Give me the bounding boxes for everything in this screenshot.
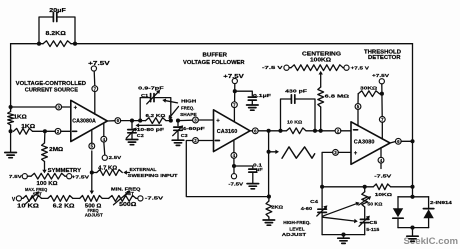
svg-text:CA3080: CA3080: [354, 140, 375, 146]
label -7.5V U3: [374, 163, 392, 180]
label 4.7K: [98, 165, 117, 171]
terminal 2.5V: [102, 142, 122, 161]
svg-text:430 pF: 430 pF: [285, 88, 307, 94]
arrow shape to C3: [169, 107, 179, 120]
label C5: [366, 220, 379, 232]
potentiometer 500 min freq: [109, 191, 136, 205]
svg-text:+: +: [354, 151, 358, 157]
svg-text:2KΩ: 2KΩ: [271, 204, 283, 210]
svg-text:7.5V: 7.5V: [9, 174, 23, 180]
svg-text:C5: C5: [369, 220, 377, 225]
label high-freq level adjust: [282, 220, 311, 237]
wiper arrow centering: [319, 71, 323, 87]
wire 6.2K to freq adjust pot: [73, 197, 80, 199]
node C3: [176, 119, 180, 123]
resistor 10K RC: [281, 128, 316, 134]
wire +7.5V to pin7: [93, 71, 96, 86]
pin 5 U3: [355, 104, 361, 110]
terminal V input: [12, 196, 22, 203]
resistor 30K: [358, 91, 382, 97]
label C1: [138, 85, 164, 97]
svg-text:FREQ.: FREQ.: [181, 106, 194, 111]
svg-text:6.8 MΩ: 6.8 MΩ: [325, 93, 350, 99]
node 30K right: [380, 92, 384, 96]
label C2: [136, 123, 165, 138]
wire U3 tip to pin6: [390, 142, 396, 144]
svg-text:HIGH: HIGH: [181, 99, 197, 104]
ground C2: [126, 140, 138, 145]
wire pin5 from U1 edge: [91, 130, 93, 143]
svg-text:5-115: 5-115: [366, 227, 379, 232]
svg-text:C3: C3: [181, 133, 188, 138]
svg-text:50 KΩ: 50 KΩ: [367, 201, 382, 207]
op-amp U3 CA3080: [351, 122, 390, 165]
label 430pF: [285, 88, 307, 94]
label voltage-controlled current source: [16, 81, 87, 94]
wire C3 node to pin3 U2: [178, 119, 193, 121]
pin 4 U3: [378, 157, 384, 163]
svg-text:2.5V: 2.5V: [109, 155, 123, 161]
svg-text:20μF: 20μF: [49, 8, 66, 14]
wiper arrow freq adjust: [90, 151, 94, 194]
node pin5 sweep junction: [90, 170, 94, 174]
node bypass bottom: [232, 164, 236, 168]
resistor 6.2K bottom: [48, 196, 73, 202]
potentiometer 10K max freq: [22, 191, 42, 205]
svg-text:VOLTAGE FOLLOWER: VOLTAGE FOLLOWER: [183, 60, 245, 66]
pin 3 U2: [193, 117, 199, 123]
resistor 1K vertical: [8, 107, 14, 131]
label 2M: [49, 147, 63, 153]
node waveform tap: [267, 150, 271, 154]
svg-text:1KΩ: 1KΩ: [14, 114, 27, 120]
wire maxfreq to 6.2K: [42, 197, 48, 199]
wire diode box top: [398, 196, 429, 198]
pin 2 U2: [193, 138, 199, 144]
resistor 1K horizontal: [14, 128, 45, 134]
node C1 right: [169, 119, 173, 123]
node R2 to pin2: [43, 129, 47, 133]
svg-text:LEVEL: LEVEL: [289, 226, 304, 231]
wire rail to pin3 U1: [9, 105, 71, 109]
wire pin3 to U2: [198, 119, 213, 121]
label C4: [301, 199, 319, 211]
label 2-IN914: [430, 200, 452, 205]
svg-text:SWEEPING INPUT: SWEEPING INPUT: [128, 173, 178, 178]
svg-text:4-60pF: 4-60pF: [182, 126, 205, 131]
capacitor C2 10-80pF: [126, 121, 136, 140]
node 2K junction: [267, 195, 271, 199]
ground left rail: [5, 153, 17, 158]
svg-text:8.2KΩ: 8.2KΩ: [46, 31, 66, 37]
label 1K vertical: [14, 114, 27, 120]
wire pin7 into U3: [381, 122, 383, 139]
svg-text:SYMMETRY: SYMMETRY: [48, 168, 82, 174]
resistor 4.7K sweep: [92, 170, 123, 176]
label 2K: [271, 204, 283, 210]
label 0.1uF bottom: [253, 163, 263, 172]
svg-text:+: +: [74, 106, 78, 112]
svg-text:-7.5 V: -7.5 V: [262, 65, 284, 71]
potentiometer 100K centering: [289, 65, 344, 71]
capacitor C5 5-115pF: [359, 207, 370, 235]
terminal -7.5V U2: [228, 174, 244, 188]
svg-text:C4: C4: [310, 199, 318, 204]
label threshold detector: [364, 50, 401, 62]
diode D2 1N914 right: [423, 197, 433, 228]
capacitor 0.1uF top: [235, 91, 256, 105]
svg-text:4.7 KΩ: 4.7 KΩ: [98, 165, 117, 171]
arrow level to 50K: [323, 202, 360, 216]
label 500 freq adjust: [85, 203, 103, 217]
label max freq set: [25, 187, 48, 196]
svg-text:ADJUST: ADJUST: [85, 213, 103, 218]
capacitor C3 4-60pF: [173, 121, 184, 140]
ground C3: [172, 140, 184, 145]
ground diodes: [407, 236, 418, 241]
label 500 min freq: [119, 202, 136, 208]
resistor 2K: [266, 197, 272, 220]
capacitor 430pF loop: [281, 95, 316, 131]
wire hysteresis rail: [322, 186, 412, 188]
svg-text:500Ω: 500Ω: [119, 202, 136, 208]
svg-text:SHAPE: SHAPE: [180, 112, 197, 117]
capacitor 20uF loop wire: [39, 17, 75, 44]
terminal -7.5V symmetry: [9, 174, 27, 180]
pin 3 U1: [56, 104, 62, 110]
wire pin3 corner: [322, 152, 333, 206]
svg-text:ADJUST: ADJUST: [282, 232, 307, 237]
ground bottom rail: [338, 235, 349, 244]
op-amp U1 CA3080A: [71, 100, 108, 141]
wire diode box bottom: [398, 227, 429, 229]
wire pin5 into U3: [357, 109, 359, 126]
svg-text:CA3160: CA3160: [217, 129, 238, 135]
svg-text:C2: C2: [137, 133, 145, 138]
label 1K horizontal: [21, 124, 35, 130]
node C2: [130, 119, 134, 123]
diode D1 1N914 left: [393, 197, 403, 228]
svg-text:2MΩ: 2MΩ: [49, 147, 63, 153]
resistor 6.8M: [318, 87, 324, 107]
ground 0.1uF bottom: [247, 184, 259, 189]
label symmetry: [48, 168, 82, 174]
terminal +7.5V centering: [344, 65, 370, 71]
ground 0.1uF top: [247, 105, 259, 110]
label 30K: [360, 86, 377, 92]
wire +7.5V down to pin7 U3: [381, 84, 383, 117]
svg-text:-7.5V: -7.5V: [228, 182, 244, 188]
svg-text:C1: C1: [141, 93, 149, 98]
wire 6.8M to pin2 node: [320, 107, 322, 131]
wire pin7 into U2: [233, 107, 235, 121]
label 0.1uF top: [253, 93, 271, 98]
label 10K max freq: [17, 204, 39, 210]
arrow shape to C1: [162, 99, 177, 103]
node centering wiper junction: [319, 129, 323, 133]
svg-text:6.2 KΩ: 6.2 KΩ: [146, 113, 166, 119]
node bottom rail ground: [341, 233, 345, 237]
wire U2 to pin4: [233, 140, 235, 153]
potentiometer 100K symmetry: [27, 173, 66, 179]
wire U1 tip to pin6: [107, 120, 115, 122]
svg-text:HIGH-FREQ.: HIGH-FREQ.: [283, 220, 310, 225]
svg-text:-7.5V: -7.5V: [374, 173, 392, 179]
node pin3 rail left: [320, 185, 324, 189]
resistor R 8.2K: [39, 41, 75, 47]
wire pin2 to U3: [341, 130, 351, 132]
watermark SeekIC.com: [404, 236, 459, 247]
label buffer voltage follower: [183, 52, 245, 66]
pin 6 U2: [252, 128, 258, 134]
wire pin3 to U3: [338, 151, 351, 153]
svg-text:10-80 pF: 10-80 pF: [137, 127, 165, 132]
potentiometer 50K: [359, 187, 372, 207]
pin 7 U3: [379, 117, 385, 123]
arrow external sweeping input: [123, 170, 129, 174]
node RC box left: [278, 129, 282, 133]
wire +7.5V to pin7 U2: [234, 84, 236, 102]
capacitor 0.1uF bottom: [234, 166, 257, 183]
svg-text:CENTERING: CENTERING: [302, 51, 341, 57]
svg-text:0.1μF: 0.1μF: [253, 93, 271, 98]
svg-text:EXTERNAL: EXTERNAL: [130, 167, 157, 172]
pin 2 U3: [335, 128, 341, 134]
svg-text:10 KΩ: 10 KΩ: [17, 204, 39, 210]
svg-text:DETECTOR: DETECTOR: [368, 55, 401, 61]
svg-text:CA3080A: CA3080A: [72, 119, 96, 125]
pin 2 U1: [55, 128, 61, 134]
wire pin6 to C2 node: [121, 120, 141, 122]
node 10K rail: [410, 185, 414, 189]
label C3: [181, 126, 205, 138]
arrow waveform: [270, 150, 280, 154]
node output branch down: [267, 129, 271, 133]
label external sweeping input: [128, 167, 178, 178]
svg-text:V: V: [12, 197, 16, 203]
terminal +7.5V symmetry: [67, 174, 91, 181]
wire C4 C5 bottom rail: [322, 234, 365, 236]
node RC box right: [313, 129, 317, 133]
svg-text:BUFFER: BUFFER: [203, 52, 228, 58]
wire diode ground stem: [412, 228, 414, 236]
svg-text:+7.5V: +7.5V: [88, 61, 111, 67]
resistor 6.2K mid: [140, 118, 171, 124]
svg-text:4-60: 4-60: [301, 206, 313, 211]
label 6.2K bottom: [53, 204, 75, 210]
label 20uF: [49, 8, 66, 14]
op-amp U2 CA3160: [214, 110, 251, 152]
wire left rail: [10, 44, 12, 110]
label 6.8M: [325, 93, 350, 99]
terminal +7.5V U2: [223, 74, 245, 84]
capacitor C4 4-60pF: [317, 205, 328, 234]
node bypass top: [233, 89, 237, 93]
node diode box top: [410, 195, 414, 199]
pin 4 U1: [101, 136, 107, 142]
wire pin6 to rail: [401, 140, 413, 142]
wire right rail: [412, 44, 414, 197]
wire RC to pin2 U3: [315, 130, 335, 132]
node pin6 rail: [410, 139, 414, 143]
svg-text:+7.5 V: +7.5 V: [351, 65, 370, 71]
wire pin4 from U1 edge: [103, 123, 105, 136]
waveform triangle symbol: [282, 147, 315, 158]
node left rail pin2 branch: [9, 129, 13, 133]
svg-text:10KΩ: 10KΩ: [375, 192, 392, 198]
wire rail to ground: [10, 131, 12, 152]
terminal -7.5V min freq: [136, 195, 164, 201]
svg-text:μF: μF: [256, 167, 263, 172]
pin 6 U1: [115, 118, 121, 124]
svg-text:+7.5V: +7.5V: [72, 175, 91, 181]
label 10K hysteresis: [375, 192, 392, 198]
label 100K symmetry: [37, 181, 58, 187]
terminal +7.5V 30K: [372, 73, 390, 84]
svg-text:VOLTAGE-CONTROLLED: VOLTAGE-CONTROLLED: [16, 81, 87, 87]
capacitor C 20uF: [53, 13, 56, 22]
pin 5 U1: [89, 143, 95, 149]
label 8.2K: [46, 31, 66, 37]
node top-left of R1: [37, 42, 41, 46]
wire pin4 down: [233, 158, 235, 174]
svg-text:0.9-7pF: 0.9-7pF: [138, 85, 164, 90]
svg-text:+: +: [216, 119, 220, 125]
node diode box bottom: [410, 226, 414, 230]
svg-text:1KΩ: 1KΩ: [21, 124, 35, 130]
resistor 10K hysteresis: [373, 184, 390, 190]
label 10K RC: [287, 119, 302, 125]
node top-right of R1: [73, 42, 77, 46]
wire pin7 into U1: [94, 91, 96, 114]
svg-text:10 KΩ: 10 KΩ: [287, 119, 302, 125]
wire U2 tip to pin6: [250, 130, 253, 132]
pin 4 U2: [231, 153, 237, 159]
label 50K: [367, 201, 382, 207]
pin 6 U3: [395, 138, 401, 144]
svg-text:CURRENT SOURCE: CURRENT SOURCE: [25, 87, 79, 93]
wire pin6 out: [258, 130, 281, 132]
wire pin2 to U2: [198, 140, 213, 142]
arrow level to C5: [323, 217, 358, 223]
node 6.2K C1 left: [138, 119, 142, 123]
wire U3 to pin4: [380, 148, 382, 158]
wire output down to feedback: [268, 131, 270, 197]
svg-text:30KΩ: 30KΩ: [360, 86, 377, 92]
pin 7 U1: [92, 86, 98, 92]
pin 7 U2: [232, 102, 238, 108]
resistor 2M: [42, 131, 48, 161]
label centering: [302, 51, 341, 63]
wiper arrow symmetry: [42, 162, 46, 174]
svg-text:6.2 KΩ: 6.2 KΩ: [53, 204, 75, 210]
terminal +7.5V U1 pin7: [88, 61, 111, 71]
wire top feedback rail: [11, 43, 413, 45]
label min freq set: [111, 187, 141, 197]
capacitor C1 0.9-7pF loop: [140, 90, 171, 121]
label high freq shape: [180, 99, 197, 118]
potentiometer 500 freq adjust: [80, 196, 103, 202]
svg-text:-7.5V: -7.5V: [145, 195, 165, 201]
terminal -7.5V centering: [262, 65, 289, 71]
pin 3 U3: [333, 150, 339, 156]
label 6.2K mid: [146, 113, 166, 119]
node 50K top: [363, 185, 367, 189]
svg-text:100KΩ: 100KΩ: [310, 58, 331, 64]
wire node to pin2 U1: [45, 130, 71, 132]
wire feedback pin2 U2: [186, 141, 269, 197]
wire freq adjust to min freq pot: [102, 197, 108, 199]
ground 2K: [263, 220, 275, 225]
wire 30K to pin5 U3: [357, 94, 359, 104]
svg-text:2-IN914: 2-IN914: [430, 200, 452, 205]
